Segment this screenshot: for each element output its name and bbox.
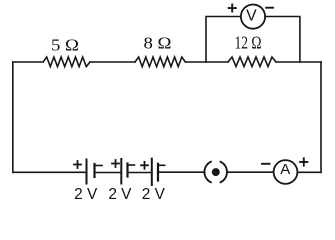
svg-text:2 V: 2 V: [142, 186, 166, 203]
wire: plug key to ammeter: [227, 171, 274, 173]
wire: between R1 and R2: [90, 61, 135, 63]
battery cell B2 short plate: [128, 164, 135, 177]
svg-text:V: V: [246, 7, 257, 24]
battery B3 plus sign: [141, 162, 148, 169]
wire: B3 to plug key K: [158, 171, 205, 173]
resistor R3 12 ohm zigzag: [228, 57, 276, 67]
voltmeter plus sign: [229, 5, 236, 12]
wire: left vertical side: [12, 62, 14, 172]
label R1 value 5 ohm: [51, 35, 79, 54]
wire: bottom-left segment to battery: [13, 171, 87, 173]
wire: between R2 and R3 with node to voltmeter: [185, 61, 228, 63]
battery cell B2 long plate: [120, 159, 122, 184]
ammeter U2 circle: [274, 160, 298, 184]
battery cell B1 short plate: [95, 164, 103, 177]
battery cell B3 long plate: [151, 159, 153, 185]
label R2 value 8 ohm: [144, 34, 172, 53]
voltmeter U1 circle: [241, 5, 265, 29]
label B1 value 2 V: [74, 186, 98, 203]
svg-text:12 Ω: 12 Ω: [235, 33, 262, 53]
wire: top-left segment to R1: [13, 61, 43, 63]
battery B1 plus sign: [74, 161, 81, 168]
ammeter plus sign: [300, 158, 307, 165]
svg-text:A: A: [280, 161, 290, 178]
voltmeter minus sign: [266, 7, 273, 9]
label B3 value 2 V: [142, 186, 166, 203]
svg-text:2 V: 2 V: [108, 186, 132, 203]
label B2 value 2 V: [108, 186, 132, 203]
voltmeter letter V: [246, 7, 257, 24]
wire: ammeter to right corner: [297, 171, 321, 173]
wire: B1 to B2: [95, 172, 122, 174]
ammeter minus sign: [262, 163, 270, 165]
wire: voltmeter left lead: [206, 17, 241, 63]
wire: right vertical side: [320, 62, 322, 172]
plug key K right arc: [221, 162, 228, 183]
svg-text:8 Ω: 8 Ω: [144, 34, 172, 53]
wire: voltmeter right lead: [265, 17, 300, 63]
svg-text:5 Ω: 5 Ω: [51, 35, 79, 54]
wire: B2 to B3: [128, 172, 152, 174]
plug key K left arc: [204, 162, 211, 183]
battery cell B1 long plate: [86, 160, 88, 184]
label R3 value 12 ohm: [235, 33, 262, 53]
wire: from R3 to right corner: [276, 61, 321, 63]
plug key K dot: [212, 168, 220, 176]
resistor R1 5 ohm zigzag: [43, 57, 90, 67]
svg-text:2 V: 2 V: [74, 186, 98, 203]
resistor R2 8 ohm zigzag: [135, 57, 185, 67]
battery B2 plus sign: [112, 160, 119, 167]
ammeter letter A: [280, 161, 290, 178]
battery cell B3 short plate: [158, 164, 165, 181]
